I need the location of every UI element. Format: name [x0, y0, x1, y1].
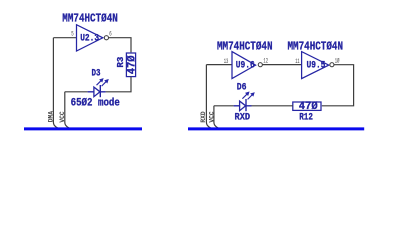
- resistor R12 box: [293, 102, 321, 110]
- svg-text:RXD: RXD: [235, 113, 251, 124]
- wire R12 to LED D6: [252, 105, 293, 107]
- svg-text:D3: D3: [92, 69, 101, 80]
- svg-text:47Ø: 47Ø: [126, 55, 138, 74]
- LED D6 emission arrows: [242, 92, 254, 100]
- svg-text:5: 5: [71, 30, 74, 37]
- wire net VCC vertical (left): [65, 92, 69, 128]
- svg-text:11: 11: [295, 58, 300, 65]
- LED D3 emission arrows: [97, 79, 109, 87]
- wire LED D6 to VCC: [214, 105, 234, 107]
- op-amp U2.3 inverter triangle: [77, 25, 103, 51]
- svg-text:U9.5: U9.5: [307, 60, 326, 71]
- svg-text:R12: R12: [299, 112, 313, 123]
- inverter bubble U9.5 output: [330, 63, 334, 67]
- svg-text:MM74HCTØ4N: MM74HCTØ4N: [288, 39, 344, 53]
- op-amp U9.5 inverter triangle: [302, 52, 329, 79]
- svg-text:65Ø2 mode: 65Ø2 mode: [71, 98, 120, 110]
- svg-text:VCC: VCC: [208, 111, 215, 122]
- op-amp U9.6 inverter triangle: [232, 52, 256, 79]
- wire U9.6 out to U9.5 in: [262, 64, 301, 66]
- wire net RXD vertical: [206, 65, 210, 128]
- svg-text:47Ø: 47Ø: [299, 101, 318, 113]
- svg-text:12: 12: [263, 58, 268, 65]
- bus bar right: [188, 127, 364, 130]
- wire U2.3 output to R3: [109, 38, 131, 53]
- LED D3 diode triangle: [94, 87, 100, 97]
- svg-text:VCC: VCC: [59, 111, 66, 122]
- svg-text:MM74HCTØ4N: MM74HCTØ4N: [217, 39, 273, 53]
- svg-text:RXD: RXD: [200, 111, 207, 122]
- wire net DMA vertical: [53, 38, 57, 128]
- wire U9.5 output down to R12: [322, 65, 354, 106]
- LED D3 leads: [88, 91, 106, 93]
- inverter bubble U2.3 output: [104, 36, 108, 40]
- wire input to U9.6: [206, 64, 232, 66]
- resistor R3 box: [126, 53, 135, 77]
- svg-text:R3: R3: [116, 57, 126, 68]
- wire net VCC vertical (right): [214, 106, 218, 128]
- LED D3 cathode bar: [99, 85, 101, 97]
- LED D6 cathode bar: [245, 99, 247, 111]
- svg-text:13: 13: [224, 58, 229, 65]
- svg-text:6: 6: [109, 30, 112, 37]
- wire R3 to LED D3: [106, 77, 131, 92]
- svg-text:U2.3: U2.3: [80, 33, 99, 44]
- svg-text:U9.6: U9.6: [236, 60, 255, 71]
- svg-text:MM74HCTØ4N: MM74HCTØ4N: [62, 12, 118, 26]
- bus bar left: [24, 127, 142, 130]
- svg-text:D6: D6: [237, 83, 247, 94]
- LED D6 leads: [234, 105, 252, 107]
- wire input to U2.3: [53, 37, 76, 39]
- inverter bubble U9.6 output: [258, 63, 262, 67]
- svg-text:1Ø: 1Ø: [335, 58, 340, 65]
- svg-text:DMA: DMA: [47, 111, 54, 122]
- LED D6 diode triangle: [240, 101, 246, 111]
- wire LED D3 to VCC: [65, 91, 88, 93]
